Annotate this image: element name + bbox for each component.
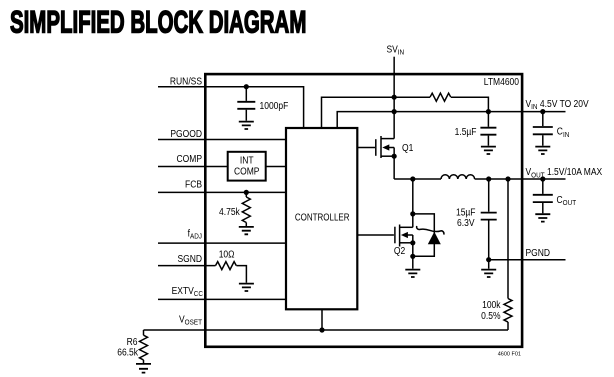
svg-text:SIMPLIFIED BLOCK DIAGRAM: SIMPLIFIED BLOCK DIAGRAM xyxy=(10,4,306,40)
svg-text:1.5µF: 1.5µF xyxy=(455,127,477,138)
svg-text:1000pF: 1000pF xyxy=(260,100,289,111)
svg-text:RUN/SS: RUN/SS xyxy=(170,76,202,87)
svg-text:4.75k: 4.75k xyxy=(219,207,240,218)
svg-text:CONTROLLER: CONTROLLER xyxy=(295,212,350,223)
svg-text:PGND: PGND xyxy=(526,248,551,259)
svg-text:66.5k: 66.5k xyxy=(117,347,138,358)
svg-text:R6: R6 xyxy=(127,337,138,348)
svg-text:COMP: COMP xyxy=(234,166,259,177)
svg-text:PGOOD: PGOOD xyxy=(170,128,202,139)
svg-text:FCB: FCB xyxy=(185,179,202,190)
svg-text:10Ω: 10Ω xyxy=(219,249,235,260)
svg-text:COMP: COMP xyxy=(177,153,202,164)
svg-text:INT: INT xyxy=(240,155,254,166)
svg-text:4600 F01: 4600 F01 xyxy=(498,352,521,358)
svg-text:6.3V: 6.3V xyxy=(457,217,475,228)
svg-text:LTM4600: LTM4600 xyxy=(484,77,519,88)
svg-text:Q1: Q1 xyxy=(402,142,413,153)
svg-text:15µF: 15µF xyxy=(456,207,476,218)
svg-text:Q2: Q2 xyxy=(394,246,405,257)
svg-text:100k: 100k xyxy=(482,299,501,310)
svg-text:0.5%: 0.5% xyxy=(481,310,500,321)
svg-text:SGND: SGND xyxy=(177,253,202,264)
